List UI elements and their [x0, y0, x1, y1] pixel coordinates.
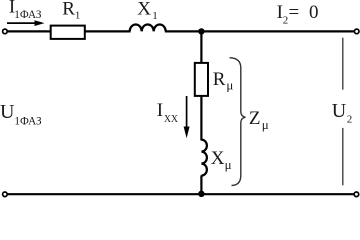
arrow Ixx current direction: [186, 96, 188, 128]
wire bottom horizontal: [7, 193, 355, 195]
brace Zmu: [230, 58, 246, 186]
svg-text:2: 2: [283, 15, 289, 27]
arrow I1 current direction: [7, 22, 36, 24]
terminal top-left: [3, 29, 8, 34]
svg-text:I: I: [157, 100, 163, 121]
node U2 measurement line upper: [342, 38, 344, 90]
terminal bottom-left: [3, 192, 8, 197]
svg-text:X: X: [211, 148, 225, 169]
node junction bottom: [198, 191, 204, 197]
terminal top-right: [354, 29, 359, 34]
svg-text:1: 1: [152, 10, 158, 22]
wire middle branch upper: [200, 31, 202, 64]
svg-text:R: R: [213, 69, 226, 90]
svg-text:μ: μ: [226, 78, 233, 93]
terminal bottom-right: [354, 192, 359, 197]
wire middle branch mid: [200, 96, 202, 141]
wire middle branch lower: [200, 175, 202, 194]
wire top right of coil: [165, 30, 355, 32]
svg-text:0: 0: [309, 2, 319, 23]
inductor Xmu: [201, 140, 207, 176]
svg-text:U: U: [332, 100, 347, 122]
wire top horizontal: [7, 30, 131, 32]
svg-text:=: =: [289, 2, 300, 23]
svg-text:2: 2: [347, 114, 353, 126]
svg-text:U: U: [0, 101, 15, 123]
resistor R1: [51, 26, 85, 39]
svg-text:Z: Z: [249, 108, 261, 129]
svg-text:XX: XX: [164, 113, 178, 125]
svg-text:1ФАЗ: 1ФАЗ: [14, 9, 41, 21]
svg-text:X: X: [137, 0, 151, 19]
inductor X1: [130, 25, 166, 32]
node U2 measurement line lower: [342, 128, 344, 185]
node junction top: [198, 28, 204, 34]
svg-text:R: R: [62, 0, 75, 20]
svg-text:1: 1: [75, 9, 81, 21]
resistor Rmu: [195, 63, 208, 96]
svg-text:1ФАЗ: 1ФАЗ: [14, 115, 41, 127]
svg-text:μ: μ: [262, 117, 269, 132]
svg-text:μ: μ: [225, 157, 232, 172]
